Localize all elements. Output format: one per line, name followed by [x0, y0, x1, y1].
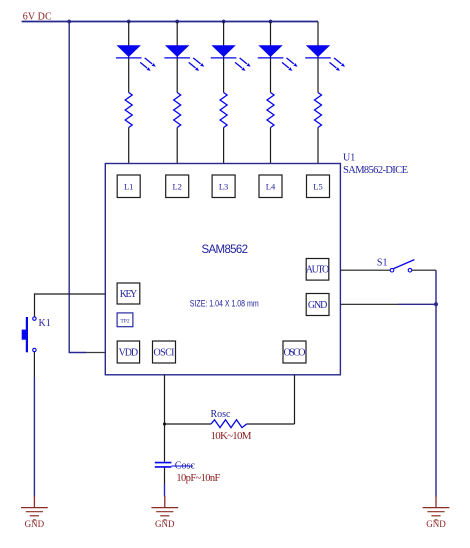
svg-text:L2: L2 [172, 181, 181, 191]
svg-text:SAM8562: SAM8562 [202, 244, 248, 256]
svg-text:10pF~10nF: 10pF~10nF [176, 473, 220, 484]
svg-text:10K~10M: 10K~10M [211, 430, 252, 442]
svg-text:AUTO: AUTO [306, 265, 330, 276]
svg-text:GND: GND [308, 300, 328, 311]
svg-text:S1: S1 [377, 257, 388, 268]
svg-text:VDD: VDD [119, 348, 139, 359]
svg-text:SIZE: 1.04 X 1.08 mm: SIZE: 1.04 X 1.08 mm [190, 299, 259, 309]
svg-text:OSCO: OSCO [284, 348, 306, 359]
svg-text:L1: L1 [124, 181, 133, 191]
svg-text:KEY: KEY [120, 289, 138, 300]
svg-text:Cosc: Cosc [175, 461, 196, 472]
svg-text:Rosc: Rosc [211, 409, 232, 420]
svg-text:OSCI: OSCI [154, 348, 175, 359]
svg-text:K1: K1 [39, 318, 51, 329]
svg-text:U1: U1 [343, 153, 355, 164]
svg-text:SAM8562-DICE: SAM8562-DICE [343, 165, 408, 176]
svg-text:L3: L3 [219, 181, 228, 191]
svg-text:L5: L5 [313, 181, 322, 191]
svg-text:6V DC: 6V DC [23, 12, 52, 23]
svg-text:L4: L4 [266, 181, 276, 191]
svg-text:TP2: TP2 [120, 318, 129, 324]
